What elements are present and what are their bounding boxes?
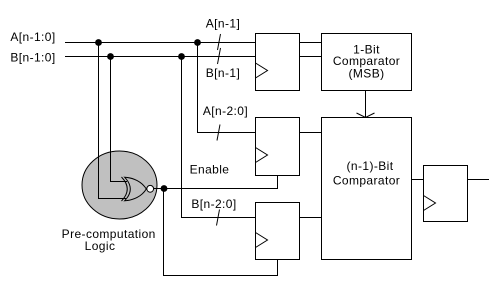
svg-text:B[n-2:0]: B[n-2:0] <box>191 197 236 211</box>
wire bus A[n-1:0] horizontal <box>65 42 256 44</box>
register R3 (B[n-2:0]) <box>256 203 300 260</box>
junction dot A to XNOR <box>95 39 102 46</box>
caption Pre-computation Logic <box>62 227 156 253</box>
wire B into XNOR upper input <box>111 57 128 182</box>
wire XNOR output / Enable to register EN <box>154 176 278 189</box>
register R4 (output) <box>424 166 468 222</box>
wire B[n-2:0] from bus to register R3 <box>182 57 256 218</box>
svg-text:(n-1)-Bit: (n-1)-Bit <box>347 159 394 173</box>
pre-computation logic circle <box>82 151 157 219</box>
register R1 (MSB) <box>256 34 300 91</box>
register R2 (A[n-2:0]) <box>256 118 300 176</box>
wire R3 to comparator <box>300 217 322 219</box>
wire R1 to comparator line B <box>300 56 322 58</box>
junction dot enable <box>161 185 168 192</box>
junction dot B to XNOR <box>107 53 114 60</box>
bus slash on B[n-2:0] <box>217 210 220 226</box>
wire R2 to comparator <box>300 132 322 134</box>
svg-text:A[n-1]: A[n-1] <box>206 16 240 30</box>
svg-text:Enable: Enable <box>190 163 230 177</box>
(n-1)-bit comparator U3 <box>322 118 412 260</box>
svg-text:B[n-1]: B[n-1] <box>206 66 240 80</box>
wire A[n-2:0] from bus to register R2 <box>198 43 256 133</box>
wire output <box>468 179 490 181</box>
junction dot A to lower register <box>194 39 201 46</box>
svg-text:(MSB): (MSB) <box>349 66 385 80</box>
junction dot B to lower register <box>178 53 185 60</box>
svg-text:Logic: Logic <box>85 239 116 253</box>
svg-text:B[n-1:0]: B[n-1:0] <box>10 50 55 64</box>
wire enable branch to bottom register EN <box>164 189 278 276</box>
wire A into XNOR lower input <box>99 43 127 199</box>
wire comparator to output register <box>412 179 424 181</box>
svg-text:A[n-2:0]: A[n-2:0] <box>203 104 248 118</box>
1-bit comparator U2 <box>322 34 412 91</box>
wire arrow MSB result to (n-1)-bit comparator <box>357 91 375 118</box>
bus slash on A[n-2:0] <box>217 125 220 141</box>
wire R1 to comparator line A <box>300 42 322 44</box>
bus slash on B[n-1] <box>218 48 221 64</box>
svg-text:A[n-1:0]: A[n-1:0] <box>10 30 55 44</box>
wire bus B[n-1:0] horizontal <box>65 56 256 58</box>
bus slash on A[n-1] <box>218 34 221 50</box>
XNOR gate U1 <box>122 177 154 201</box>
svg-text:Comparator: Comparator <box>333 173 400 187</box>
